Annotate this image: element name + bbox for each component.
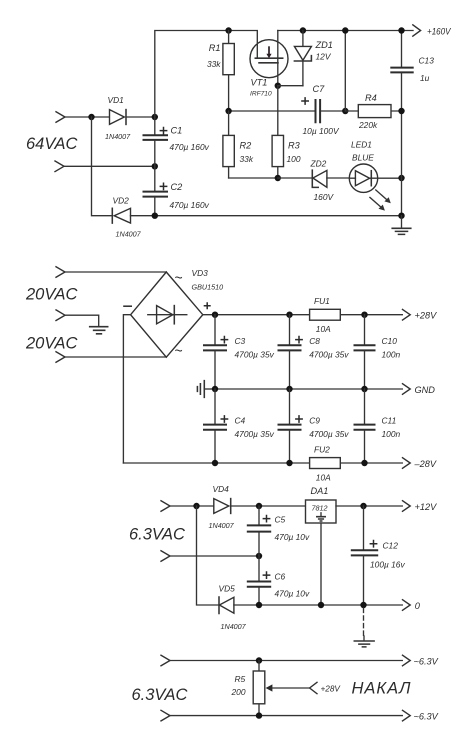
input arrow 5 (20VAC bottom)	[56, 352, 65, 363]
ground symbol (input center tap)	[90, 327, 108, 334]
svg-text:1u: 1u	[420, 73, 430, 83]
svg-text:–28V: –28V	[414, 459, 437, 469]
node DA1 ground junction	[318, 602, 324, 608]
wire filament bottom rail	[170, 715, 402, 717]
wire VD1 to C1 top	[126, 116, 155, 118]
resistor R2	[223, 111, 234, 178]
node C12 bottom junction	[360, 602, 366, 608]
svg-text:100µ 16v: 100µ 16v	[370, 559, 405, 569]
wire section1 ground rail	[131, 215, 402, 217]
svg-text:20VAC: 20VAC	[25, 335, 77, 353]
svg-text:4700µ 35v: 4700µ 35v	[235, 349, 275, 359]
svg-text:R2: R2	[240, 140, 252, 150]
svg-text:33k: 33k	[240, 154, 254, 164]
zener diode ZD2	[312, 170, 327, 187]
node C5/C6 midpoint junction	[256, 553, 262, 559]
regulator DA1	[306, 500, 337, 523]
svg-text:100: 100	[287, 154, 301, 164]
svg-text:IRF710: IRF710	[250, 90, 272, 97]
wire gate divider row	[229, 110, 346, 112]
wire C2 bottom to ground rail	[154, 197, 156, 216]
node R3 bottom junction	[275, 175, 281, 181]
node C6 bottom junction	[256, 602, 262, 608]
transistor VT1	[250, 31, 288, 86]
output arrow -28V	[403, 458, 411, 469]
svg-text:1N4007: 1N4007	[209, 521, 235, 530]
diode VD4	[214, 499, 231, 514]
capacitor C9	[278, 389, 303, 463]
svg-text:VD4: VD4	[213, 484, 230, 494]
svg-text:20VAC: 20VAC	[25, 286, 77, 304]
resistor R4	[345, 105, 401, 118]
wire input5 to bridge bottom	[65, 356, 166, 358]
svg-text:10µ 100V: 10µ 100V	[303, 126, 340, 136]
diode VD5	[219, 597, 234, 614]
svg-text:~: ~	[175, 270, 183, 286]
input arrow 6 (6.3VAC top)	[161, 501, 170, 512]
output arrow 0	[403, 600, 411, 611]
node ZD1 top junction	[300, 27, 306, 33]
zener diode ZD1	[294, 31, 311, 86]
svg-text:ZD2: ZD2	[310, 159, 327, 169]
input arrow 3 (20VAC top)	[56, 267, 65, 278]
fuse FU2	[310, 458, 341, 469]
capacitor C4	[203, 389, 228, 463]
label minus (bridge)	[123, 305, 132, 307]
wire VT1 source to ZD1 anode	[278, 85, 303, 87]
node C12 top junction	[360, 503, 366, 509]
wire filament top rail	[170, 660, 402, 662]
svg-text:7812: 7812	[312, 503, 328, 512]
wire center tap to ground	[65, 315, 99, 326]
wire input1 to VD1	[65, 116, 109, 118]
node C3/C4 GND junction	[212, 386, 218, 392]
capacitor C5	[247, 506, 271, 556]
node C8 top junction	[286, 312, 292, 318]
node LED right junction	[398, 175, 404, 181]
svg-text:~: ~	[175, 343, 183, 359]
node C2 bottom junction	[152, 213, 158, 219]
svg-text:4700µ 35v: 4700µ 35v	[309, 349, 349, 359]
svg-text:C6: C6	[275, 571, 286, 581]
svg-text:33k: 33k	[207, 59, 221, 69]
svg-text:LED1: LED1	[351, 140, 372, 150]
svg-text:C10: C10	[382, 336, 398, 346]
svg-text:BLUE: BLUE	[352, 153, 374, 163]
svg-text:200: 200	[231, 687, 246, 697]
capacitor C6	[247, 556, 271, 605]
svg-text:DA1: DA1	[311, 486, 329, 496]
svg-text:470µ 160v: 470µ 160v	[170, 200, 210, 210]
svg-text:C8: C8	[309, 336, 320, 346]
svg-text:НАКАЛ: НАКАЛ	[352, 680, 412, 698]
resistor R5	[253, 661, 265, 716]
svg-text:VD5: VD5	[219, 584, 236, 594]
svg-text:6.3VAC: 6.3VAC	[129, 526, 185, 544]
capacitor C2	[143, 183, 169, 197]
svg-text:C9: C9	[309, 415, 320, 425]
svg-text:1N4007: 1N4007	[221, 622, 247, 631]
node C3 top junction	[212, 312, 218, 318]
capacitor C7	[301, 97, 320, 123]
svg-text:+28V: +28V	[321, 685, 342, 694]
svg-text:+28V: +28V	[415, 311, 438, 321]
svg-text:470µ 10v: 470µ 10v	[275, 532, 310, 542]
node R4 right junction	[398, 108, 404, 114]
LED LED1	[349, 164, 401, 192]
svg-text:C7: C7	[313, 84, 326, 94]
svg-text:470µ 10v: 470µ 10v	[275, 588, 310, 598]
svg-text:4700µ 35v: 4700µ 35v	[235, 429, 275, 439]
node R5 top junction	[256, 657, 262, 663]
node C7 right junction	[342, 108, 348, 114]
node ground rail right junction	[398, 213, 404, 219]
svg-text:R4: R4	[365, 93, 377, 103]
svg-text:10A: 10A	[316, 324, 331, 334]
input arrow 8 (filament top)	[161, 655, 170, 666]
svg-text:6.3VAC: 6.3VAC	[132, 686, 188, 704]
node C13 top junction	[398, 27, 404, 33]
svg-text:VD1: VD1	[108, 95, 124, 105]
wire ZD2 to LED1	[327, 177, 350, 179]
node R1 bottom junction	[225, 108, 231, 114]
svg-text:0: 0	[415, 601, 421, 611]
input arrow 2 (64VAC bottom)	[55, 161, 64, 172]
node C10 top junction	[361, 312, 367, 318]
svg-text:160V: 160V	[314, 192, 335, 202]
wire DA1 output to +12V	[336, 505, 402, 507]
node C8/C9 GND junction	[286, 386, 292, 392]
wire input3 to bridge top	[65, 271, 166, 273]
output arrow GND	[403, 384, 411, 395]
svg-text:C13: C13	[419, 56, 435, 66]
svg-text:470µ 160v: 470µ 160v	[170, 142, 210, 152]
svg-text:1N4007: 1N4007	[116, 229, 142, 238]
svg-text:VD2: VD2	[113, 195, 130, 205]
svg-text:FU2: FU2	[314, 444, 330, 454]
fuse FU1	[310, 309, 341, 320]
diode VD2	[112, 208, 130, 223]
svg-text:C4: C4	[235, 415, 246, 425]
wire raw HV rail (C1 top up and right to VT1 gate)	[155, 31, 257, 136]
wire VD4 anode down to VD5 row	[197, 506, 220, 605]
wire -28V rail	[123, 462, 402, 464]
LED light arrows	[370, 190, 391, 211]
resistor R3	[272, 86, 283, 178]
svg-text:C5: C5	[275, 514, 286, 524]
node C10/C11 GND junction	[361, 386, 367, 392]
output arrow ~6.3V (top)	[403, 655, 411, 666]
ground symbol (GND rail left)	[197, 381, 215, 398]
svg-text:R5: R5	[235, 674, 246, 684]
svg-text:GBU1510: GBU1510	[192, 282, 224, 291]
capacitor C10	[354, 315, 376, 389]
capacitor C3	[203, 315, 228, 389]
wire input7 to C5/C6 midpoint	[170, 555, 259, 557]
input arrow 7 (6.3VAC bottom)	[161, 551, 170, 562]
wire +28V rail	[203, 314, 402, 316]
svg-text:64VAC: 64VAC	[26, 135, 77, 153]
diode VD1	[110, 110, 127, 125]
wire GND rail	[215, 388, 402, 390]
capacitor C11	[354, 389, 376, 463]
wire right HV vertical	[401, 111, 403, 216]
wire R2 bottom to R3 bottom	[229, 177, 278, 179]
capacitor C1	[143, 127, 169, 140]
bridge rectifier VD3 body	[131, 272, 203, 357]
svg-text:100n: 100n	[382, 429, 401, 439]
svg-text:ZD1: ZD1	[315, 40, 333, 50]
node C1 top junction	[152, 114, 158, 120]
node C9 bottom junction	[286, 460, 292, 466]
label plus (bridge)	[204, 302, 211, 309]
wiper arrow from +28V into R5	[266, 682, 317, 693]
svg-text:VT1: VT1	[251, 77, 268, 87]
wire input2 to C1/C2 midpoint	[64, 165, 155, 167]
node C1/C2 midpoint junction	[152, 163, 158, 169]
input arrow 4 (center tap)	[56, 310, 65, 321]
svg-text:C3: C3	[235, 336, 246, 346]
svg-text:+12V: +12V	[415, 502, 438, 512]
svg-text:+160V: +160V	[427, 26, 451, 36]
svg-text:4700µ 35v: 4700µ 35v	[309, 429, 349, 439]
capacitor C12	[351, 506, 378, 605]
capacitor C13	[390, 31, 413, 112]
svg-text:C1: C1	[171, 126, 183, 136]
svg-text:~6.3V: ~6.3V	[414, 656, 439, 666]
node rail/C7 vertical top junction	[342, 27, 348, 33]
node C11 bottom junction	[361, 460, 367, 466]
wire +160V rail to C7/R4 node	[344, 31, 346, 112]
svg-text:C12: C12	[383, 541, 399, 551]
svg-text:10A: 10A	[316, 472, 331, 482]
wire C1 bottom to C2 top	[154, 140, 156, 191]
wire +160V rail	[278, 30, 413, 32]
wire R3 bottom to ZD2	[278, 177, 313, 179]
svg-text:~6.3V: ~6.3V	[414, 712, 439, 722]
svg-text:GND: GND	[415, 385, 436, 395]
svg-text:R3: R3	[288, 140, 301, 150]
wire input6 to VD4	[170, 505, 214, 507]
svg-text:FU1: FU1	[314, 296, 330, 306]
output arrow +160V	[413, 25, 421, 36]
output arrow +12V	[403, 501, 411, 512]
svg-text:12V: 12V	[316, 52, 332, 62]
svg-text:C2: C2	[171, 182, 183, 192]
bridge inner diode	[148, 306, 187, 324]
node VD4 anode junction	[193, 503, 199, 509]
input arrow 9 (filament bottom)	[161, 710, 170, 721]
svg-text:220k: 220k	[358, 120, 378, 130]
capacitor C8	[278, 315, 303, 389]
svg-text:R1: R1	[209, 43, 221, 53]
node C5 top junction	[256, 503, 262, 509]
svg-text:1N4007: 1N4007	[105, 132, 131, 141]
dashed wire to chassis ground	[363, 608, 365, 636]
output arrow ~6.3V (bottom)	[403, 710, 411, 721]
resistor R1	[223, 31, 234, 112]
svg-text:VD3: VD3	[192, 268, 209, 278]
node A junction	[88, 114, 94, 120]
node R1 top junction	[225, 27, 231, 33]
wire VD5 to 0 output	[234, 604, 402, 606]
svg-text:100n: 100n	[382, 349, 401, 359]
ground symbol (section 1)	[392, 216, 411, 235]
output arrow +28V	[403, 309, 411, 320]
node VT1 source junction	[275, 83, 281, 89]
svg-text:C11: C11	[382, 415, 397, 425]
ground symbol (section 3)	[354, 636, 374, 647]
node C4 bottom junction	[212, 460, 218, 466]
node R5 bottom junction	[256, 712, 262, 718]
wire bridge minus output down to -28V rail	[123, 315, 130, 463]
wire node A down to VD2	[92, 117, 113, 216]
wire VD4 to DA1 input	[231, 505, 306, 507]
wire DA1 ground pin	[320, 523, 322, 605]
input arrow 1 (64VAC top)	[56, 112, 65, 123]
